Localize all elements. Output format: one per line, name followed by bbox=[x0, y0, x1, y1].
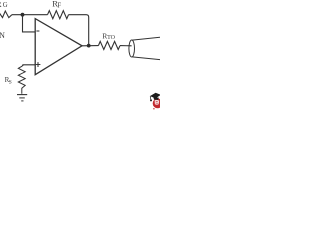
svg-text:S: S bbox=[9, 80, 12, 86]
svg-text:F: F bbox=[57, 2, 61, 9]
resistor RG bbox=[0, 11, 12, 18]
wire bbox=[12, 14, 48, 16]
resistor RTO bbox=[98, 41, 120, 49]
svg-text:IN: IN bbox=[0, 31, 5, 40]
resistor RS bbox=[18, 65, 25, 94]
node B bbox=[87, 44, 91, 48]
label RS bbox=[5, 76, 12, 85]
label RTO bbox=[102, 31, 115, 40]
wire noninverting input bbox=[23, 65, 35, 66]
node A bbox=[21, 13, 25, 17]
ground bbox=[17, 95, 27, 101]
resistor RF bbox=[48, 11, 69, 19]
svg-text:TO: TO bbox=[107, 35, 116, 41]
op-amp U1 bbox=[35, 19, 82, 75]
svg-text:G: G bbox=[3, 2, 8, 9]
label RF bbox=[52, 0, 61, 9]
svg-text:R: R bbox=[0, 0, 2, 9]
wire to coax bbox=[120, 45, 132, 47]
coax cable W1 bbox=[129, 37, 160, 59]
logo mascot bbox=[150, 93, 163, 110]
wire feedback bbox=[69, 15, 89, 46]
wire inverting input bbox=[23, 15, 36, 32]
label RG bbox=[0, 0, 8, 9]
wire output bbox=[82, 45, 98, 47]
